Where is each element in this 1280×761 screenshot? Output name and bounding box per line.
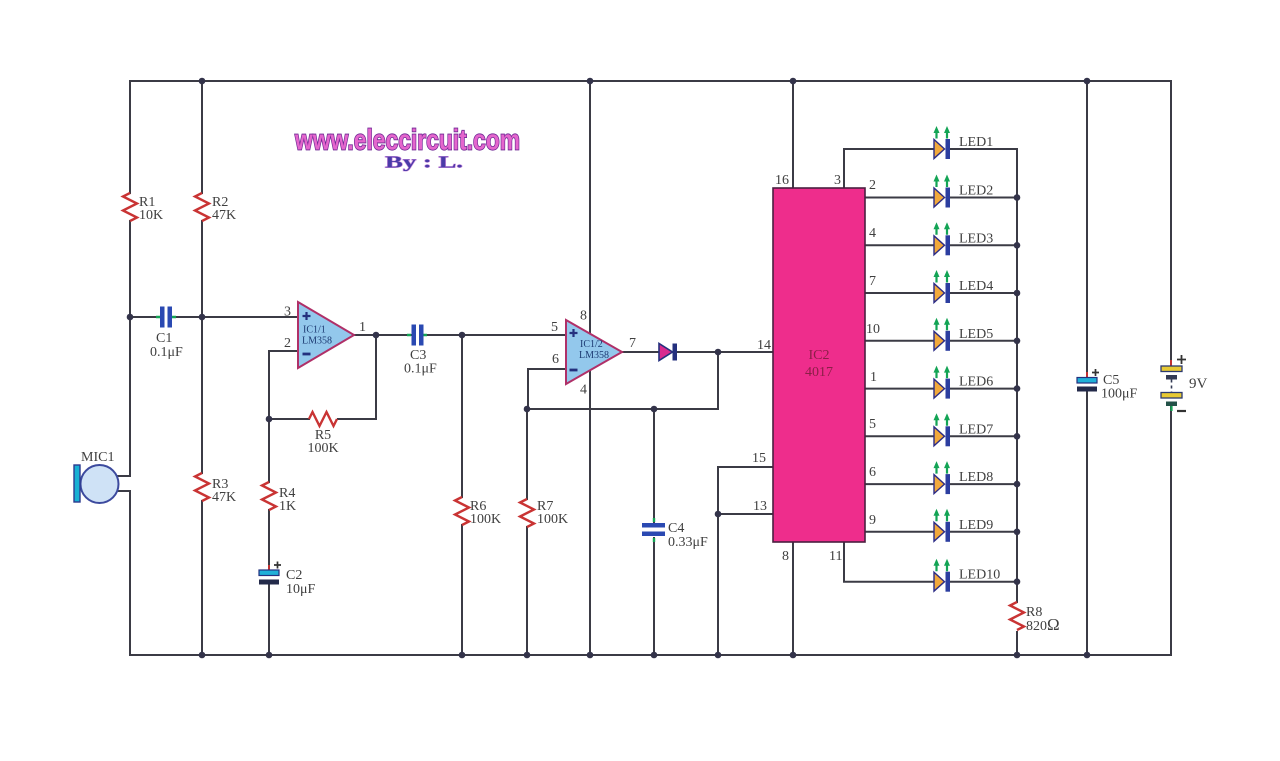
svg-text:9V: 9V	[1189, 376, 1208, 392]
wire R4/C2 column	[268, 419, 270, 655]
svg-text:3: 3	[284, 305, 291, 320]
label R2 47K	[212, 195, 236, 223]
LED LED4	[934, 270, 994, 303]
wire R7 column	[526, 409, 528, 655]
resistor R6	[455, 497, 469, 525]
svg-text:LED8: LED8	[959, 470, 993, 485]
svg-text:100K: 100K	[537, 512, 568, 527]
wire LED2 cathode to bus	[950, 197, 1018, 199]
svg-text:4: 4	[580, 383, 587, 398]
svg-text:47K: 47K	[212, 208, 236, 223]
wire LED9 cathode to bus	[950, 531, 1018, 533]
svg-text:100K: 100K	[307, 441, 338, 456]
LED LED9	[934, 509, 994, 542]
label R8 820ohm	[1026, 605, 1060, 634]
svg-text:7: 7	[869, 274, 876, 289]
wire LED6 cathode to bus	[950, 388, 1018, 390]
microphone MIC1	[74, 465, 130, 503]
diode D1	[659, 344, 677, 361]
LED LED10	[934, 559, 1001, 592]
wire pin11 of IC2 to LED10	[844, 542, 934, 582]
wire IC1/2 output to diode	[622, 351, 659, 353]
capacitor C1	[156, 307, 176, 328]
svg-text:14: 14	[757, 338, 771, 353]
svg-text:100K: 100K	[470, 512, 501, 527]
wire C3 to pin5 of IC1/2	[422, 334, 566, 336]
svg-text:LM358: LM358	[302, 336, 332, 347]
resistor R8	[1010, 602, 1024, 630]
resistor R3	[195, 473, 209, 501]
wire IC2 pin to LED2	[865, 197, 934, 199]
resistor R2	[195, 193, 209, 221]
svg-text:MIC1: MIC1	[81, 450, 114, 465]
svg-text:LED2: LED2	[959, 184, 993, 199]
wire pin15 reset	[718, 467, 773, 514]
LED LED3	[934, 222, 994, 255]
wire IC1/1 output to C3	[354, 334, 412, 336]
wire IC2 pin to LED4	[865, 292, 934, 294]
wire LED7 cathode to bus	[950, 435, 1018, 437]
svg-text:100μF: 100μF	[1101, 387, 1138, 402]
wire LED1 cathode to bus	[950, 148, 1018, 150]
resistor R7	[520, 499, 534, 527]
svg-text:LED7: LED7	[959, 422, 993, 437]
svg-text:5: 5	[869, 417, 876, 432]
svg-text:15: 15	[752, 451, 766, 466]
wire op-amp supply column pins 8/4	[589, 81, 591, 655]
svg-text:LM358: LM358	[579, 350, 609, 361]
resistor R5	[309, 412, 337, 426]
svg-text:4017: 4017	[805, 365, 833, 380]
label R6 100K	[470, 499, 501, 527]
svg-text:0.1μF: 0.1μF	[404, 362, 437, 377]
svg-text:LED1: LED1	[959, 135, 993, 150]
svg-text:10K: 10K	[139, 208, 163, 223]
wire LED cathode bus / R8 column	[1016, 149, 1018, 655]
label IC2 pin numbers	[752, 173, 880, 564]
wire LED8 cathode to bus	[950, 483, 1018, 485]
IC U3 IC2 4017	[773, 188, 865, 542]
capacitor C4	[642, 518, 665, 542]
label C3 0.1uF	[404, 348, 437, 377]
resistor R4	[262, 482, 276, 510]
svg-text:11: 11	[829, 549, 842, 564]
svg-text:LED3: LED3	[959, 231, 993, 246]
LED LED8	[934, 461, 994, 494]
svg-text:2: 2	[869, 178, 876, 193]
resistor R1	[123, 193, 137, 221]
wire left edge (R1 column)	[129, 81, 131, 655]
label C1 0.1uF	[150, 331, 183, 360]
svg-text:By : L.: By : L.	[385, 153, 463, 172]
capacitor C3	[407, 325, 427, 346]
LED LED5	[934, 318, 994, 351]
wire IC2 pin to LED6	[865, 388, 934, 390]
wire pin13 enable to ground	[718, 514, 773, 655]
wire IC2 pin to LED8	[865, 483, 934, 485]
svg-text:IC1/1: IC1/1	[303, 325, 326, 336]
svg-text:LED9: LED9	[959, 518, 993, 533]
wire IC2 pin to LED5	[865, 340, 934, 342]
wire top supply rail	[130, 80, 1171, 82]
wire right edge (battery column)	[1170, 81, 1172, 655]
wire pin2 inverting input of IC1/1	[269, 351, 298, 419]
label C5 100uF	[1101, 373, 1138, 402]
svg-text:6: 6	[552, 352, 559, 367]
label pins 5 6 8 4 7 of IC1/2	[551, 309, 636, 398]
svg-text:8: 8	[580, 309, 587, 324]
svg-text:LED5: LED5	[959, 327, 993, 342]
svg-text:C1: C1	[156, 331, 172, 346]
wire C4 column	[653, 409, 655, 655]
label R3 47K	[212, 477, 236, 505]
label C2 10uF	[286, 568, 316, 597]
wire feedback row to clock node	[527, 352, 718, 409]
svg-text:3: 3	[834, 173, 841, 188]
wire C5 column	[1086, 81, 1088, 655]
wire R6 column	[461, 335, 463, 655]
svg-text:7: 7	[629, 336, 636, 351]
label R1 10K	[139, 195, 163, 223]
svg-text:0.1μF: 0.1μF	[150, 345, 183, 360]
svg-text:LED10: LED10	[959, 568, 1000, 583]
wire pin3 of IC2 to LED1	[844, 149, 934, 188]
svg-text:R8: R8	[1026, 605, 1042, 620]
wire diode to pin14 of IC2	[677, 351, 773, 353]
svg-text:1: 1	[359, 320, 366, 335]
svg-text:1K: 1K	[279, 499, 296, 514]
capacitor C2 (electrolytic)	[259, 562, 281, 585]
svg-text:2: 2	[284, 336, 291, 351]
svg-text:4: 4	[869, 226, 876, 241]
svg-text:5: 5	[551, 320, 558, 335]
svg-text:C4: C4	[668, 521, 684, 536]
op-amp U1 IC1/1 LM358	[298, 302, 354, 368]
label R7 100K	[537, 499, 568, 527]
wire LED4 cathode to bus	[950, 292, 1018, 294]
svg-text:16: 16	[775, 173, 789, 188]
wire C1 row / pin3 input	[130, 316, 298, 318]
LED LED1	[934, 126, 994, 159]
op-amp U2 IC1/2 LM358	[566, 320, 622, 384]
wire pin16 supply of IC2	[792, 81, 794, 188]
wire IC2 pin to LED9	[865, 531, 934, 533]
svg-text:C2: C2	[286, 568, 302, 583]
svg-text:6: 6	[869, 465, 876, 480]
wire R2/R3 column	[201, 81, 203, 655]
svg-text:9: 9	[869, 513, 876, 528]
svg-text:10: 10	[866, 322, 880, 337]
svg-text:IC2: IC2	[809, 348, 830, 363]
capacitor C5 (electrolytic)	[1077, 369, 1099, 392]
battery BT1 9V	[1161, 355, 1186, 411]
LED LED7	[934, 413, 994, 446]
label C4 0.33uF	[668, 521, 708, 550]
label R4 1K	[279, 486, 296, 514]
wire LED5 cathode to bus	[950, 340, 1018, 342]
svg-text:10μF: 10μF	[286, 582, 316, 597]
svg-text:IC1/2: IC1/2	[580, 339, 603, 350]
wire pin6 inverting input of IC1/2	[528, 369, 566, 409]
wire LED3 cathode to bus	[950, 244, 1018, 246]
svg-text:0.33μF: 0.33μF	[668, 535, 708, 550]
LED LED6	[934, 366, 994, 399]
wire junction dots	[127, 78, 1091, 659]
svg-text:13: 13	[753, 499, 767, 514]
wire pin8 ground of IC2	[792, 542, 794, 655]
svg-text:LED6: LED6	[959, 375, 993, 390]
LED LED2	[934, 175, 994, 208]
label R5 100K	[307, 428, 338, 456]
wire bottom ground rail	[130, 654, 1171, 656]
svg-text:1: 1	[870, 370, 877, 385]
svg-text:8: 8	[782, 549, 789, 564]
label pins 3 2 1 of IC1/1	[284, 305, 366, 352]
svg-text:47K: 47K	[212, 490, 236, 505]
wire LED10 cathode to bus	[950, 581, 1018, 583]
wire IC2 pin to LED7	[865, 435, 934, 437]
wire IC2 pin to LED3	[865, 244, 934, 246]
wire R5 feedback loop	[269, 335, 376, 419]
svg-text:LED4: LED4	[959, 279, 993, 294]
